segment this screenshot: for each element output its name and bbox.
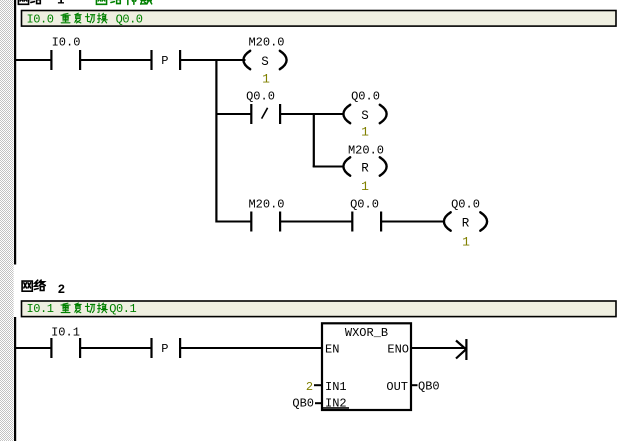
network 1 comment box [22,11,617,27]
contact P (positive edge) [150,50,152,70]
svg-text:ENO: ENO [387,343,409,357]
svg-text:1: 1 [361,125,369,140]
svg-text:S: S [361,109,369,123]
junction vertical (left branch trunk) [215,59,217,223]
network 1 title comment: 网络标题 (green, clipped) [96,0,106,4]
OUT tick [411,384,418,386]
contact P (positive edge) [150,338,152,358]
wire: rail to contact I0.0 [16,59,51,61]
svg-text:QB0: QB0 [292,396,314,410]
svg-text:Q0.0: Q0.0 [246,90,275,104]
svg-text:P: P [161,342,168,356]
wire: ENO output [411,347,466,349]
RUNG 1 branch 3: wire junction to contact M20.0 [217,221,251,223]
svg-text:Q0.0: Q0.0 [350,198,379,212]
wire: NC contact to S coil [281,113,344,115]
svg-text:R: R [361,161,369,175]
wire: junction 2 down-branch to R coil [313,166,344,168]
svg-text:1: 1 [462,235,470,250]
open branch arrow [465,339,467,360]
svg-text:Q0.0: Q0.0 [351,90,380,104]
network 1 title (clipped at top): 网络 1 [18,0,28,4]
wire: Q0.0 contact to R coil [382,221,445,223]
wire: P to WXOR_B block [181,347,321,349]
svg-text:IN1: IN1 [325,380,347,394]
svg-text:M20.0: M20.0 [348,144,384,158]
svg-text:QB0: QB0 [418,380,440,394]
wire: I0.0 to P contact [81,59,151,61]
svg-text:1: 1 [361,179,369,194]
network 2 comment box [22,301,617,317]
left power rail (network 1) [14,0,16,265]
RUNG 1 branch 2: wire junction to NC contact Q0.0 [217,113,251,115]
svg-text:1: 1 [262,72,270,87]
function block WXOR_B [322,323,411,410]
IN1 input tick [314,384,322,386]
wire: rail to contact I0.1 [16,347,51,349]
junction 2 vertical [313,113,315,167]
svg-text:I0.0: I0.0 [52,36,81,50]
svg-text:OUT: OUT [386,380,408,394]
svg-text:I0.1: I0.1 [27,302,54,316]
wire: I0.1 to P contact [81,347,151,349]
left power rail (network 2) [14,317,16,441]
network 2 title: 网络 2 [22,281,32,291]
svg-text:P: P [161,54,168,68]
IN2 input tick [315,402,322,404]
wire: P to coil M20.0 [181,59,246,61]
svg-text:1: 1 [57,0,65,7]
left gutter margin (checkered) [0,0,14,441]
svg-text:I0.1: I0.1 [51,326,80,340]
wire: M20.0 to Q0.0 contact [281,221,352,223]
svg-text:R: R [462,216,470,230]
svg-text:Q0.0: Q0.0 [116,12,143,26]
svg-text:WXOR_B: WXOR_B [345,326,388,340]
svg-text:Q0.1: Q0.1 [109,302,136,316]
svg-text:Q0.0: Q0.0 [451,198,480,212]
svg-text:2: 2 [58,283,66,297]
svg-text:M20.0: M20.0 [248,36,284,50]
svg-text:EN: EN [325,343,339,357]
svg-text:I0.0: I0.0 [27,12,54,26]
svg-text:S: S [261,55,269,69]
svg-text:M20.0: M20.0 [248,198,284,212]
svg-text:2: 2 [306,380,313,394]
